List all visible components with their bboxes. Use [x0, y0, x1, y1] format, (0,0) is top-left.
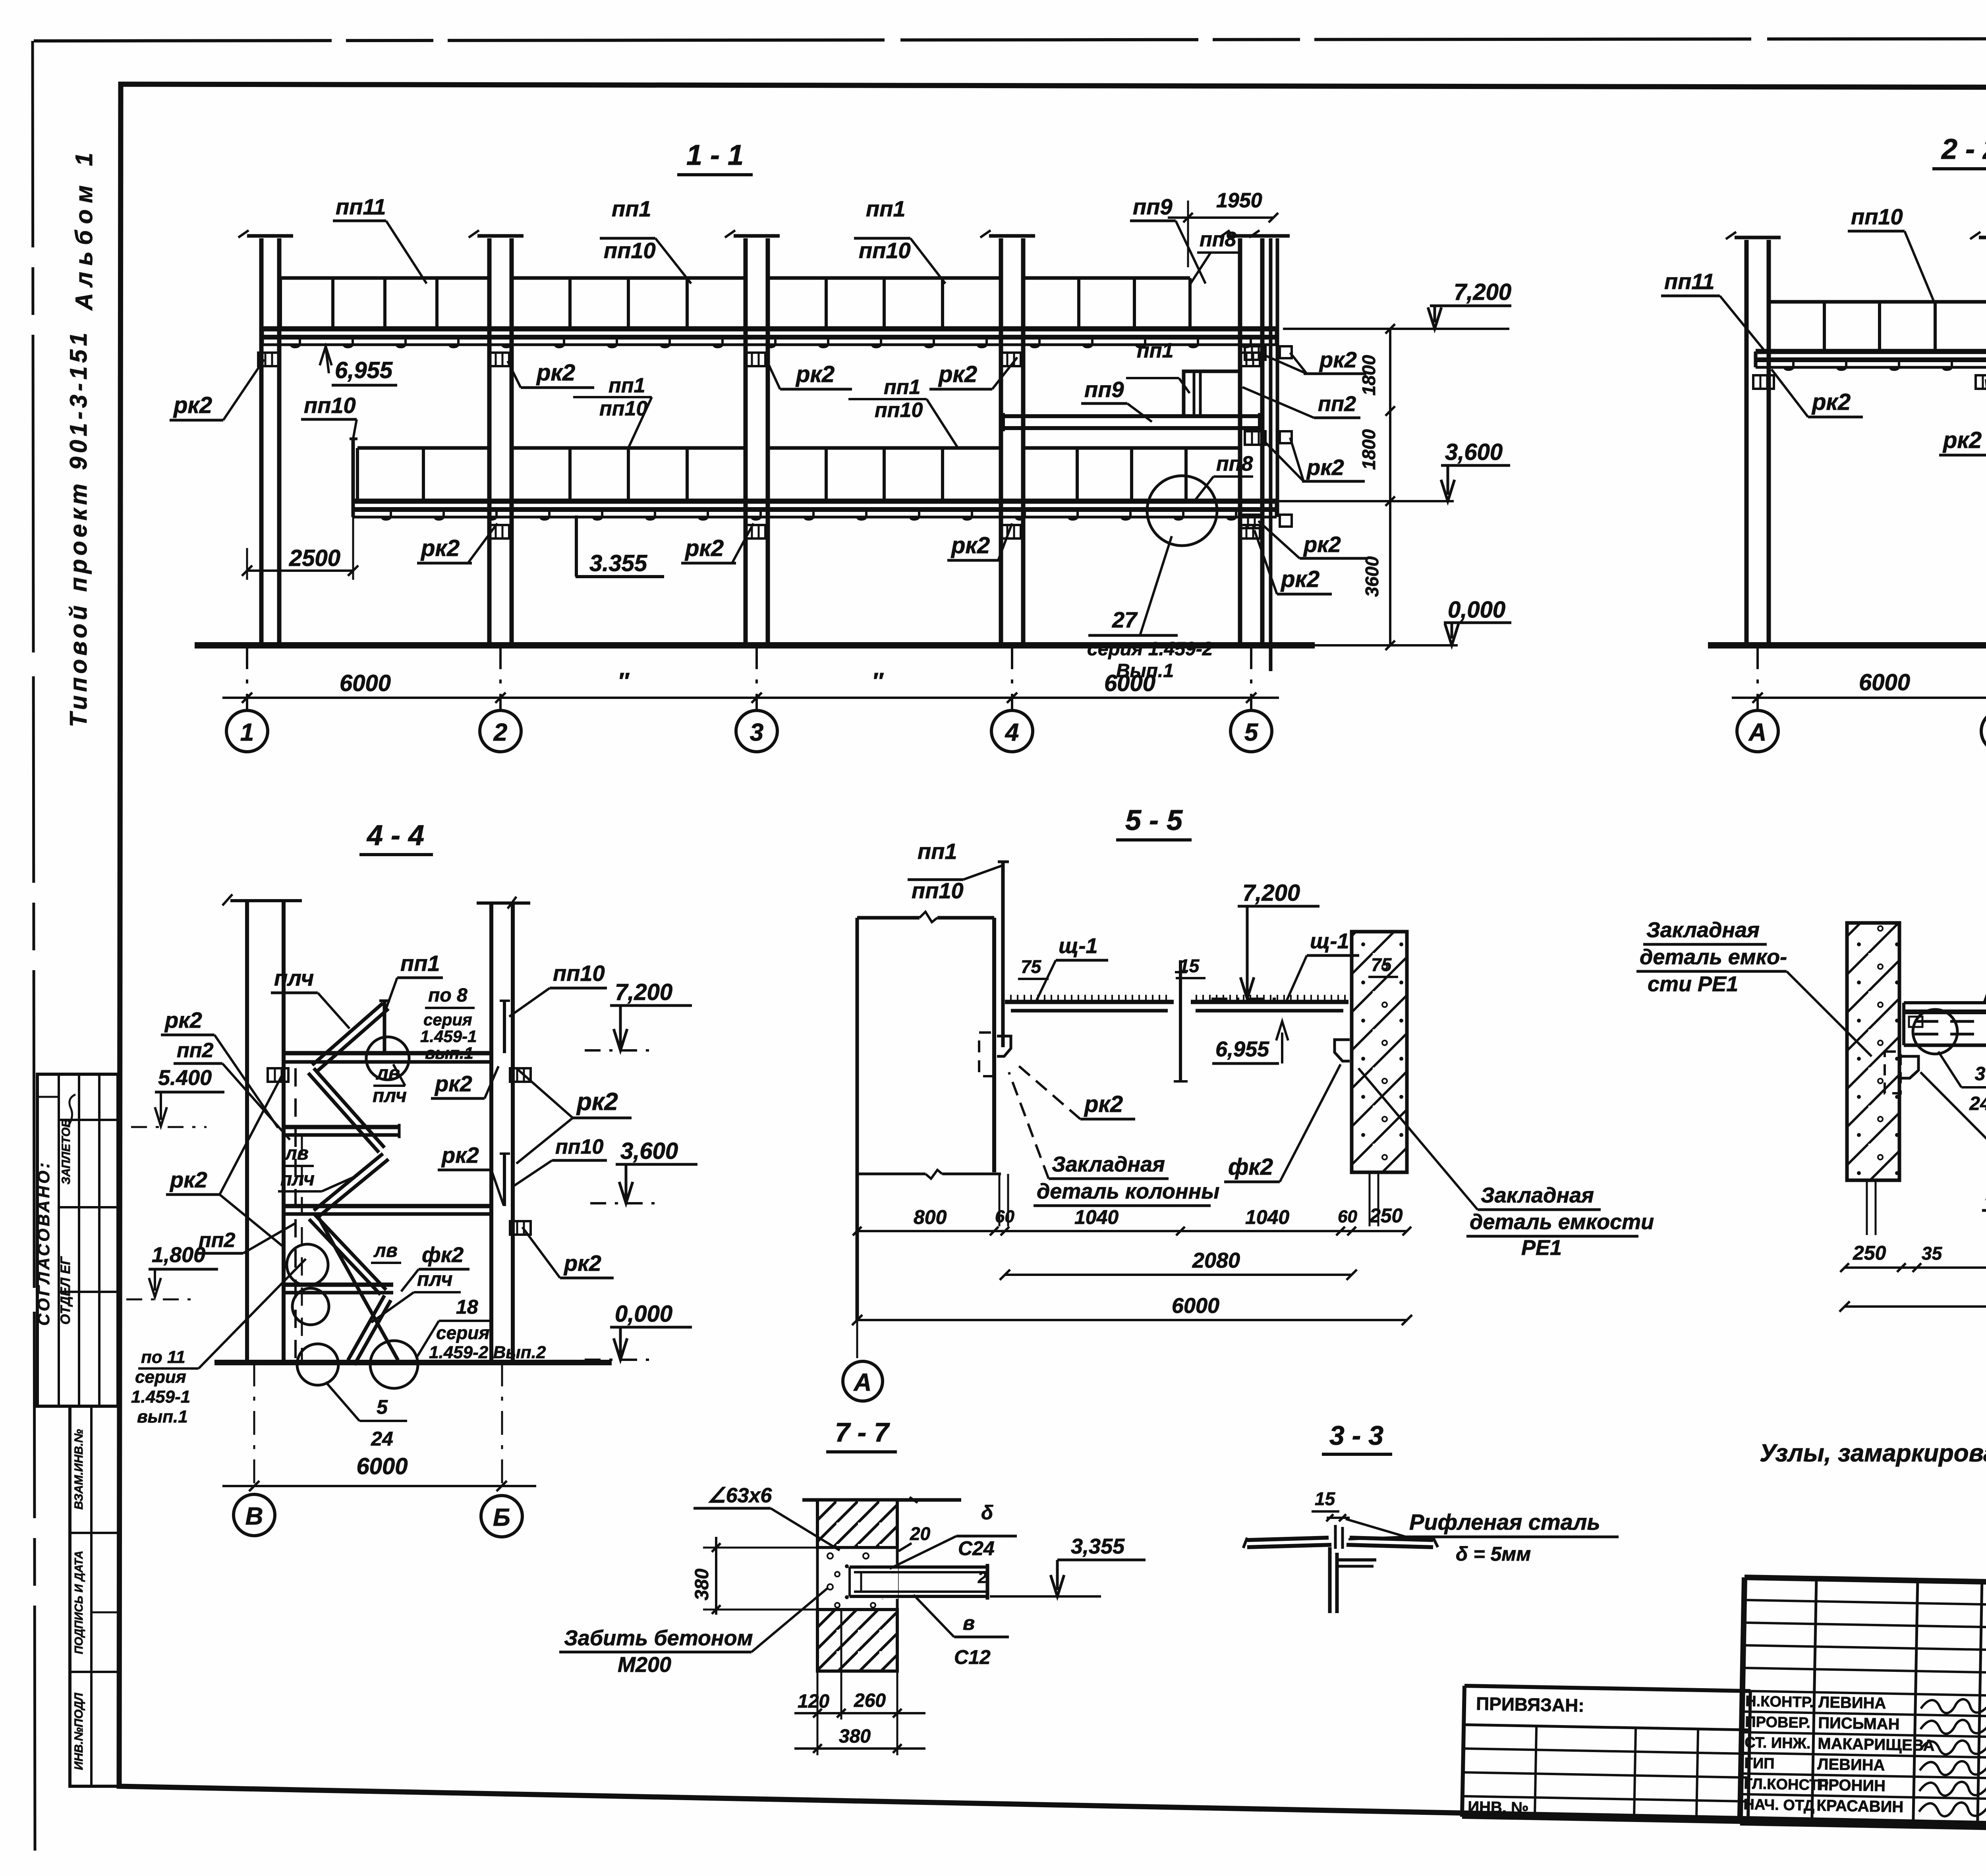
4-4 column axis B: [489, 902, 493, 1363]
svg-text:0,000: 0,000: [615, 1301, 672, 1327]
stair flight upper: [312, 1003, 383, 1065]
svg-text:М200: М200: [618, 1653, 671, 1677]
level reference lines: [1283, 328, 1509, 330]
stamp column inv: [70, 1406, 120, 1786]
svg-text:плч: плч: [280, 1169, 315, 1190]
svg-text:плч: плч: [274, 965, 314, 990]
svg-text:пп1: пп1: [1137, 339, 1173, 362]
svg-text:В: В: [245, 1503, 263, 1530]
svg-text:2080: 2080: [1192, 1249, 1240, 1272]
svg-text:рк2: рк2: [938, 361, 977, 387]
svg-text:3,355: 3,355: [1071, 1534, 1125, 1558]
svg-text:рк2: рк2: [1319, 347, 1357, 372]
5-5 right wall hatched: [1352, 932, 1407, 1172]
svg-text:плч: плч: [373, 1085, 407, 1106]
6-6 dims row: [1845, 1266, 1986, 1269]
svg-text:Забить бетоном: Забить бетоном: [564, 1626, 753, 1650]
svg-text:щ-1: щ-1: [1059, 934, 1098, 958]
dashed posts near axis V: [294, 1068, 297, 1360]
7-7 dim 380 bottom: [794, 1747, 925, 1750]
axis lines below ground: [246, 645, 248, 710]
dimension line axes 1-5: [222, 697, 1279, 699]
6-6 left wall hatched: [1847, 923, 1899, 1180]
svg-text:рк2: рк2: [1303, 532, 1341, 557]
7-7 extension verticals: [817, 1671, 819, 1755]
detail circle 27: [1147, 476, 1217, 546]
svg-text:Закладная: Закладная: [1646, 918, 1760, 942]
5-5 dims row: [857, 1230, 1407, 1232]
svg-text:С12: С12: [954, 1646, 991, 1668]
6-6 left bracket: [1902, 1056, 1918, 1078]
svg-text:вып.1: вып.1: [137, 1407, 188, 1426]
svg-text:деталь колонны: деталь колонны: [1037, 1179, 1219, 1203]
svg-text:Альбом 1: Альбом 1: [71, 147, 97, 311]
svg-text:рк2: рк2: [563, 1251, 601, 1276]
svg-text:3.355: 3.355: [589, 550, 647, 576]
svg-text:1040: 1040: [1074, 1206, 1119, 1228]
6-6 detail circle: [1913, 1009, 1957, 1054]
3-3 tee profile below: [1328, 1547, 1332, 1613]
5-5 dim 6000: [857, 1319, 1407, 1321]
svg-text:рк2: рк2: [1280, 566, 1319, 592]
5-5 left column outline: [856, 918, 859, 1320]
sheet outer edge left: [33, 41, 35, 1851]
svg-text:3,600: 3,600: [1445, 439, 1503, 465]
svg-text:1800: 1800: [1358, 429, 1379, 470]
svg-text:рк2: рк2: [1942, 427, 1982, 453]
svg-text:рк2: рк2: [1811, 389, 1851, 415]
svg-text:Закладная: Закладная: [1481, 1183, 1594, 1207]
lower platform railing: [357, 446, 489, 450]
svg-text:2: 2: [978, 1569, 987, 1586]
ground line 2-2: [1708, 642, 1986, 648]
svg-text:по 8: по 8: [428, 985, 468, 1006]
svg-text:1040: 1040: [1245, 1206, 1289, 1228]
svg-text:рк2: рк2: [173, 392, 212, 418]
svg-text:рк2: рк2: [684, 535, 724, 561]
svg-text:′′: ′′: [872, 668, 884, 694]
svg-text:75: 75: [1021, 956, 1042, 977]
svg-text:1 - 1: 1 - 1: [686, 139, 744, 171]
7-7 beam recess: [850, 1564, 898, 1599]
svg-text:пп1: пп1: [612, 196, 651, 221]
column axis 4: [999, 238, 1003, 645]
3-3 center joint: [1334, 1525, 1337, 1549]
svg-text:лв: лв: [373, 1240, 398, 1261]
svg-text:пп9: пп9: [1133, 194, 1173, 219]
4-4 column axis V: [245, 900, 249, 1363]
lower platform floor (3.600): [353, 499, 1277, 504]
5-5 left wall line: [992, 918, 996, 1172]
svg-text:ОТДЕЛ ЕГ: ОТДЕЛ ЕГ: [58, 1256, 73, 1324]
svg-text:1: 1: [240, 719, 254, 746]
level chain right of axis 5: [1389, 329, 1391, 645]
svg-text:пп8: пп8: [1216, 452, 1253, 475]
svg-text:7,200: 7,200: [615, 979, 672, 1005]
svg-text:пп10: пп10: [912, 878, 964, 903]
svg-text:6000: 6000: [340, 670, 391, 696]
floor brackets 2-2: [1753, 375, 1774, 389]
svg-text:6,955: 6,955: [1215, 1037, 1269, 1061]
svg-text:сти РЕ1: сти РЕ1: [1648, 972, 1738, 996]
svg-text:КРАСАВИН: КРАСАВИН: [1816, 1797, 1904, 1816]
svg-text:7,200: 7,200: [1242, 880, 1300, 906]
svg-text:20: 20: [910, 1523, 931, 1544]
5-5 floor shields: [1005, 1000, 1174, 1004]
svg-text:27: 27: [1112, 607, 1138, 632]
column axis 3: [744, 238, 748, 645]
4-4 landing 5.400: [284, 1125, 399, 1129]
svg-text:35: 35: [1922, 1243, 1943, 1264]
frame pp2 near axis 5: [1184, 371, 1240, 416]
7-7 wall hatched bottom: [817, 1610, 897, 1671]
right margin brackets at axis5: [1245, 346, 1265, 360]
5-5 post pp1/pp10: [1001, 862, 1005, 1047]
svg-text:щ-1: щ-1: [1310, 929, 1349, 953]
svg-text:24: 24: [371, 1428, 393, 1450]
svg-text:6000: 6000: [356, 1453, 408, 1479]
end post pp8 right: [1269, 238, 1273, 671]
svg-text:пп10: пп10: [304, 393, 356, 418]
svg-text:пп10: пп10: [604, 238, 656, 263]
svg-text:пп11: пп11: [1664, 269, 1715, 294]
6-6 dim 6000: [1845, 1305, 1986, 1308]
svg-text:пп11: пп11: [336, 194, 386, 219]
svg-text:серия: серия: [436, 1322, 489, 1343]
6-6 beam assembly: [1904, 1001, 1986, 1004]
detail circles 4-4: [366, 1037, 409, 1080]
svg-text:2 - 2: 2 - 2: [1941, 133, 1986, 165]
upper platform floor (7.200): [262, 326, 1277, 332]
svg-text:рк2: рк2: [441, 1143, 479, 1168]
svg-text:1800: 1800: [1358, 355, 1379, 396]
svg-text:ПИСЬМАН: ПИСЬМАН: [1818, 1714, 1900, 1733]
svg-text:1950: 1950: [1216, 189, 1262, 212]
svg-text:НАЧ. ОТД: НАЧ. ОТД: [1743, 1796, 1814, 1814]
svg-text:лв: лв: [284, 1143, 309, 1164]
svg-text:2: 2: [493, 719, 507, 746]
svg-text:пп10: пп10: [875, 399, 923, 422]
svg-text:∠63x6: ∠63x6: [707, 1484, 772, 1507]
svg-text:7 - 7: 7 - 7: [835, 1417, 890, 1448]
svg-text:пп10: пп10: [1851, 204, 1903, 229]
stair flight 7.2-5.4: [314, 1068, 384, 1148]
svg-text:5 - 5: 5 - 5: [1125, 805, 1183, 836]
column axis 2: [487, 238, 492, 645]
lower platform end post pp10: [352, 439, 355, 517]
svg-text:2500: 2500: [289, 545, 340, 571]
axis circles A B V: [1737, 710, 1778, 752]
4-4 axis circles: [234, 1494, 275, 1536]
svg-text:Типовой проект 901-3-151: Типовой проект 901-3-151: [65, 329, 92, 727]
svg-text:А: А: [1748, 719, 1767, 746]
platform floor 2-2: [1756, 349, 1986, 354]
svg-text:1.459-1: 1.459-1: [131, 1387, 190, 1407]
svg-text:РЕ1: РЕ1: [1521, 1236, 1562, 1260]
svg-text:пп1: пп1: [866, 196, 906, 221]
svg-text:ПРИВЯЗАН:: ПРИВЯЗАН:: [1476, 1693, 1584, 1716]
svg-text:СОГЛАСОВАНО:: СОГЛАСОВАНО:: [34, 1160, 53, 1326]
svg-text:пп10: пп10: [555, 1135, 603, 1158]
svg-text:δ = 5мм: δ = 5мм: [1456, 1543, 1531, 1565]
stair flight 3.6-1.8: [315, 1214, 386, 1290]
4-4 floor 3.600: [284, 1204, 491, 1208]
svg-text:5.400: 5.400: [158, 1066, 212, 1090]
svg-text:7,200: 7,200: [1454, 279, 1511, 305]
axis circles 1-5: [226, 710, 268, 752]
svg-text:рк2: рк2: [576, 1088, 618, 1116]
svg-text:15: 15: [1179, 955, 1200, 976]
svg-text:деталь емко-: деталь емко-: [1640, 945, 1787, 969]
svg-text:рк2: рк2: [1306, 455, 1344, 480]
svg-text:5: 5: [377, 1396, 388, 1418]
svg-text:260: 260: [854, 1690, 886, 1711]
svg-text:пп2: пп2: [199, 1229, 236, 1252]
svg-text:фк2: фк2: [422, 1243, 464, 1267]
column axis 1: [259, 238, 264, 645]
svg-text:пп1: пп1: [884, 376, 920, 399]
sheet outer edge top: [34, 38, 1986, 41]
svg-text:А: А: [853, 1369, 872, 1396]
svg-text:пп10: пп10: [859, 238, 911, 263]
svg-text:деталь емкости: деталь емкости: [1470, 1210, 1654, 1234]
svg-text:МАКАРИЩЕВА: МАКАРИЩЕВА: [1818, 1735, 1935, 1754]
platform railing 2-2: [1769, 300, 1986, 304]
privyazan table: [1462, 1686, 1750, 1822]
5-5 left bracket: [997, 1036, 1011, 1056]
svg-text:5: 5: [1244, 719, 1259, 746]
svg-text:ГЛ.КОНСТР: ГЛ.КОНСТР: [1744, 1776, 1829, 1794]
svg-text:18: 18: [456, 1296, 478, 1318]
svg-text:ИНВ. №: ИНВ. №: [1468, 1798, 1529, 1817]
svg-text:пп8: пп8: [1200, 228, 1236, 251]
svg-text:6000: 6000: [1859, 670, 1910, 695]
svg-text:120: 120: [798, 1691, 829, 1712]
5-5 middle post: [1179, 960, 1182, 1081]
svg-text:800: 800: [914, 1206, 947, 1228]
svg-text:60: 60: [995, 1207, 1014, 1226]
svg-text:4 - 4: 4 - 4: [366, 820, 424, 851]
svg-text:Рифленая сталь: Рифленая сталь: [1409, 1509, 1600, 1534]
4-4 brackets: [510, 1068, 531, 1082]
svg-text:Б: Б: [493, 1504, 510, 1531]
svg-text:пп9: пп9: [1084, 377, 1124, 402]
svg-text:пп1: пп1: [918, 839, 957, 864]
svg-text:пп1: пп1: [400, 951, 440, 976]
7-7 dim 380 vertical: [715, 1537, 717, 1615]
svg-text:рк2: рк2: [164, 1007, 202, 1033]
svg-text:плч: плч: [417, 1268, 453, 1290]
dimension line 2-2: [1732, 697, 1986, 699]
4-4 right posts pp10: [503, 1001, 506, 1053]
stair flight 5.4-3.6: [314, 1154, 383, 1210]
beam pp9 between axes 4-5: [1003, 414, 1260, 418]
svg-text:δ: δ: [981, 1502, 993, 1524]
upper floor brackets rk2: [258, 353, 279, 366]
svg-text:серия: серия: [135, 1367, 186, 1387]
7-7 dims 120 260: [794, 1712, 925, 1714]
svg-text:ПРОВЕР.: ПРОВЕР.: [1745, 1714, 1810, 1731]
svg-text:рк2: рк2: [420, 535, 460, 561]
svg-text:в: в: [963, 1612, 975, 1634]
svg-text:серия 1.459-2: серия 1.459-2: [1087, 639, 1213, 660]
5-5 dim 2080: [1005, 1274, 1352, 1276]
svg-text:С24: С24: [958, 1537, 995, 1559]
dim 2500: [247, 569, 353, 572]
svg-text:60: 60: [1338, 1207, 1357, 1226]
svg-text:серия: серия: [423, 1010, 472, 1029]
svg-text:Н.КОНТР.: Н.КОНТР.: [1745, 1693, 1814, 1711]
svg-text:пп2: пп2: [177, 1039, 214, 1062]
axis lines 2-2: [1756, 645, 1759, 710]
7-7 channel beam C24: [850, 1565, 987, 1569]
stair long flight 3.6-0: [318, 1216, 398, 1360]
svg-text:4: 4: [1005, 719, 1019, 746]
svg-text:1.459-2 Вып.2: 1.459-2 Вып.2: [429, 1343, 546, 1362]
svg-text:рк2: рк2: [536, 360, 575, 386]
svg-text:пп10: пп10: [599, 397, 647, 420]
svg-text:лв: лв: [376, 1063, 400, 1084]
svg-text:380: 380: [839, 1726, 871, 1747]
7-7 wall concrete infill: [817, 1548, 897, 1610]
ground line: [195, 642, 1315, 648]
stair post pp1 on 7.200: [383, 1001, 386, 1053]
4-4 landing 1.800: [284, 1283, 393, 1287]
svg-text:′′: ′′: [618, 668, 630, 694]
svg-text:250: 250: [1853, 1242, 1886, 1264]
svg-text:ВЗАМ.ИНВ.№: ВЗАМ.ИНВ.№: [72, 1429, 85, 1510]
svg-text:ЗАПЛЕТОВ: ЗАПЛЕТОВ: [60, 1119, 73, 1184]
wall stub lines below: [1866, 1180, 1868, 1235]
svg-text:3 - 3: 3 - 3: [1329, 1421, 1383, 1451]
4-4 ground 0.000: [214, 1360, 612, 1365]
svg-text:пп10: пп10: [553, 961, 605, 986]
note uzly: [1760, 1440, 1986, 1467]
svg-text:ЛЕВИНА: ЛЕВИНА: [1818, 1693, 1886, 1712]
svg-text:пп1: пп1: [609, 374, 645, 397]
svg-text:250: 250: [1369, 1204, 1403, 1227]
stair flight 1.8-0: [348, 1295, 384, 1360]
column axis 5: [1238, 238, 1242, 645]
svg-text:24: 24: [1969, 1093, 1986, 1114]
svg-text:вып.1: вып.1: [425, 1044, 473, 1062]
svg-text:15: 15: [1315, 1488, 1336, 1509]
7-7 wall top edge: [802, 1498, 961, 1502]
svg-text:Закладная: Закладная: [1052, 1152, 1165, 1176]
svg-text:рк2: рк2: [1084, 1091, 1123, 1117]
svg-text:ПРОНИН: ПРОНИН: [1817, 1776, 1886, 1795]
svg-text:380: 380: [692, 1569, 713, 1600]
svg-text:фк2: фк2: [1228, 1154, 1273, 1180]
svg-text:ИНВ.№ПОДЛ: ИНВ.№ПОДЛ: [72, 1692, 85, 1770]
svg-text:по 11: по 11: [141, 1347, 185, 1367]
svg-text:ПОДПИСЬ И ДАТА: ПОДПИСЬ И ДАТА: [73, 1551, 85, 1654]
svg-text:Вып.1: Вып.1: [1116, 660, 1174, 681]
columns A B V: [1745, 240, 1749, 645]
svg-text:рк2: рк2: [434, 1071, 472, 1096]
5-5 axis circle A: [843, 1361, 883, 1401]
svg-text:пп2: пп2: [1318, 392, 1356, 416]
svg-text:6,955: 6,955: [335, 357, 393, 383]
stamp box soglasovano: [37, 1074, 118, 1406]
svg-text:рк2: рк2: [795, 361, 835, 387]
5-5 right bracket: [1335, 1040, 1350, 1061]
svg-text:6000: 6000: [1172, 1294, 1219, 1318]
7-7 wall hatched top: [817, 1500, 897, 1548]
svg-text:3: 3: [750, 719, 763, 746]
lower floor brackets rk2: [489, 525, 509, 538]
svg-text:рк2: рк2: [950, 533, 990, 558]
svg-text:1,800: 1,800: [152, 1243, 205, 1267]
svg-text:рк2: рк2: [169, 1167, 207, 1192]
4-4 floor 7.200: [284, 1051, 491, 1056]
svg-text:3,600: 3,600: [620, 1138, 678, 1164]
3-3 floor plates: [1247, 1538, 1329, 1540]
svg-text:75: 75: [1371, 954, 1392, 975]
svg-text:Узлы, замаркированные на черте: Узлы, замаркированные на чертеже, см. КЖ…: [1760, 1440, 1986, 1467]
upper platform railing pp11/pp1/pp10: [280, 276, 489, 280]
svg-text:СТ. ИНЖ.: СТ. ИНЖ.: [1745, 1734, 1811, 1752]
svg-text:3600: 3600: [1362, 556, 1382, 597]
title block: [1740, 1577, 1986, 1845]
svg-text:1.459-1: 1.459-1: [420, 1027, 477, 1046]
svg-text:0,000: 0,000: [1448, 597, 1505, 623]
svg-text:ЛЕВИНА: ЛЕВИНА: [1817, 1755, 1885, 1774]
svg-text:3: 3: [1975, 1063, 1986, 1085]
